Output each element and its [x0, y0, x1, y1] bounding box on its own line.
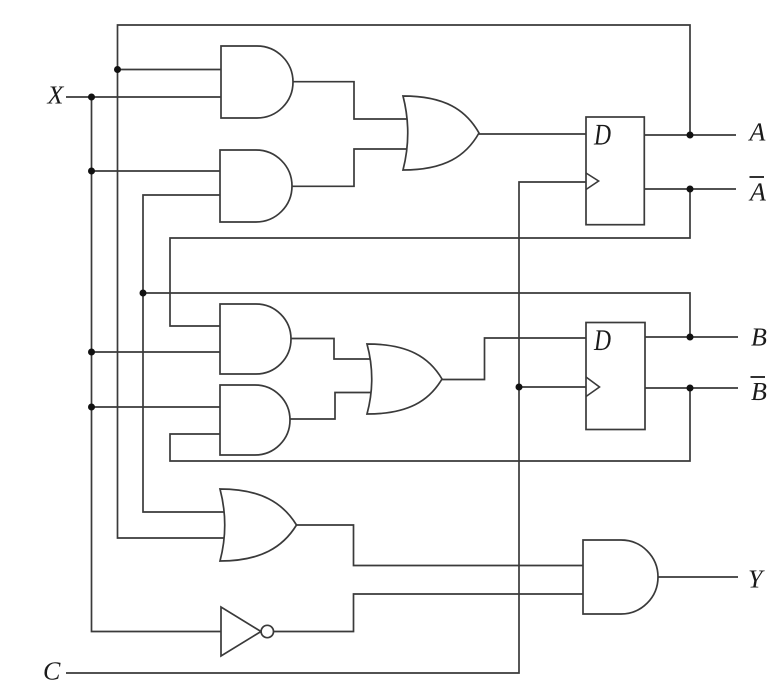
svg-text:D: D — [593, 324, 611, 357]
svg-text:D: D — [593, 119, 611, 152]
svg-text:B: B — [751, 377, 767, 406]
svg-text:A: A — [748, 118, 766, 147]
svg-text:B: B — [751, 323, 767, 352]
svg-text:A: A — [748, 178, 766, 207]
svg-text:Y: Y — [748, 565, 765, 594]
svg-text:X: X — [47, 81, 65, 110]
svg-text:C: C — [43, 657, 61, 686]
